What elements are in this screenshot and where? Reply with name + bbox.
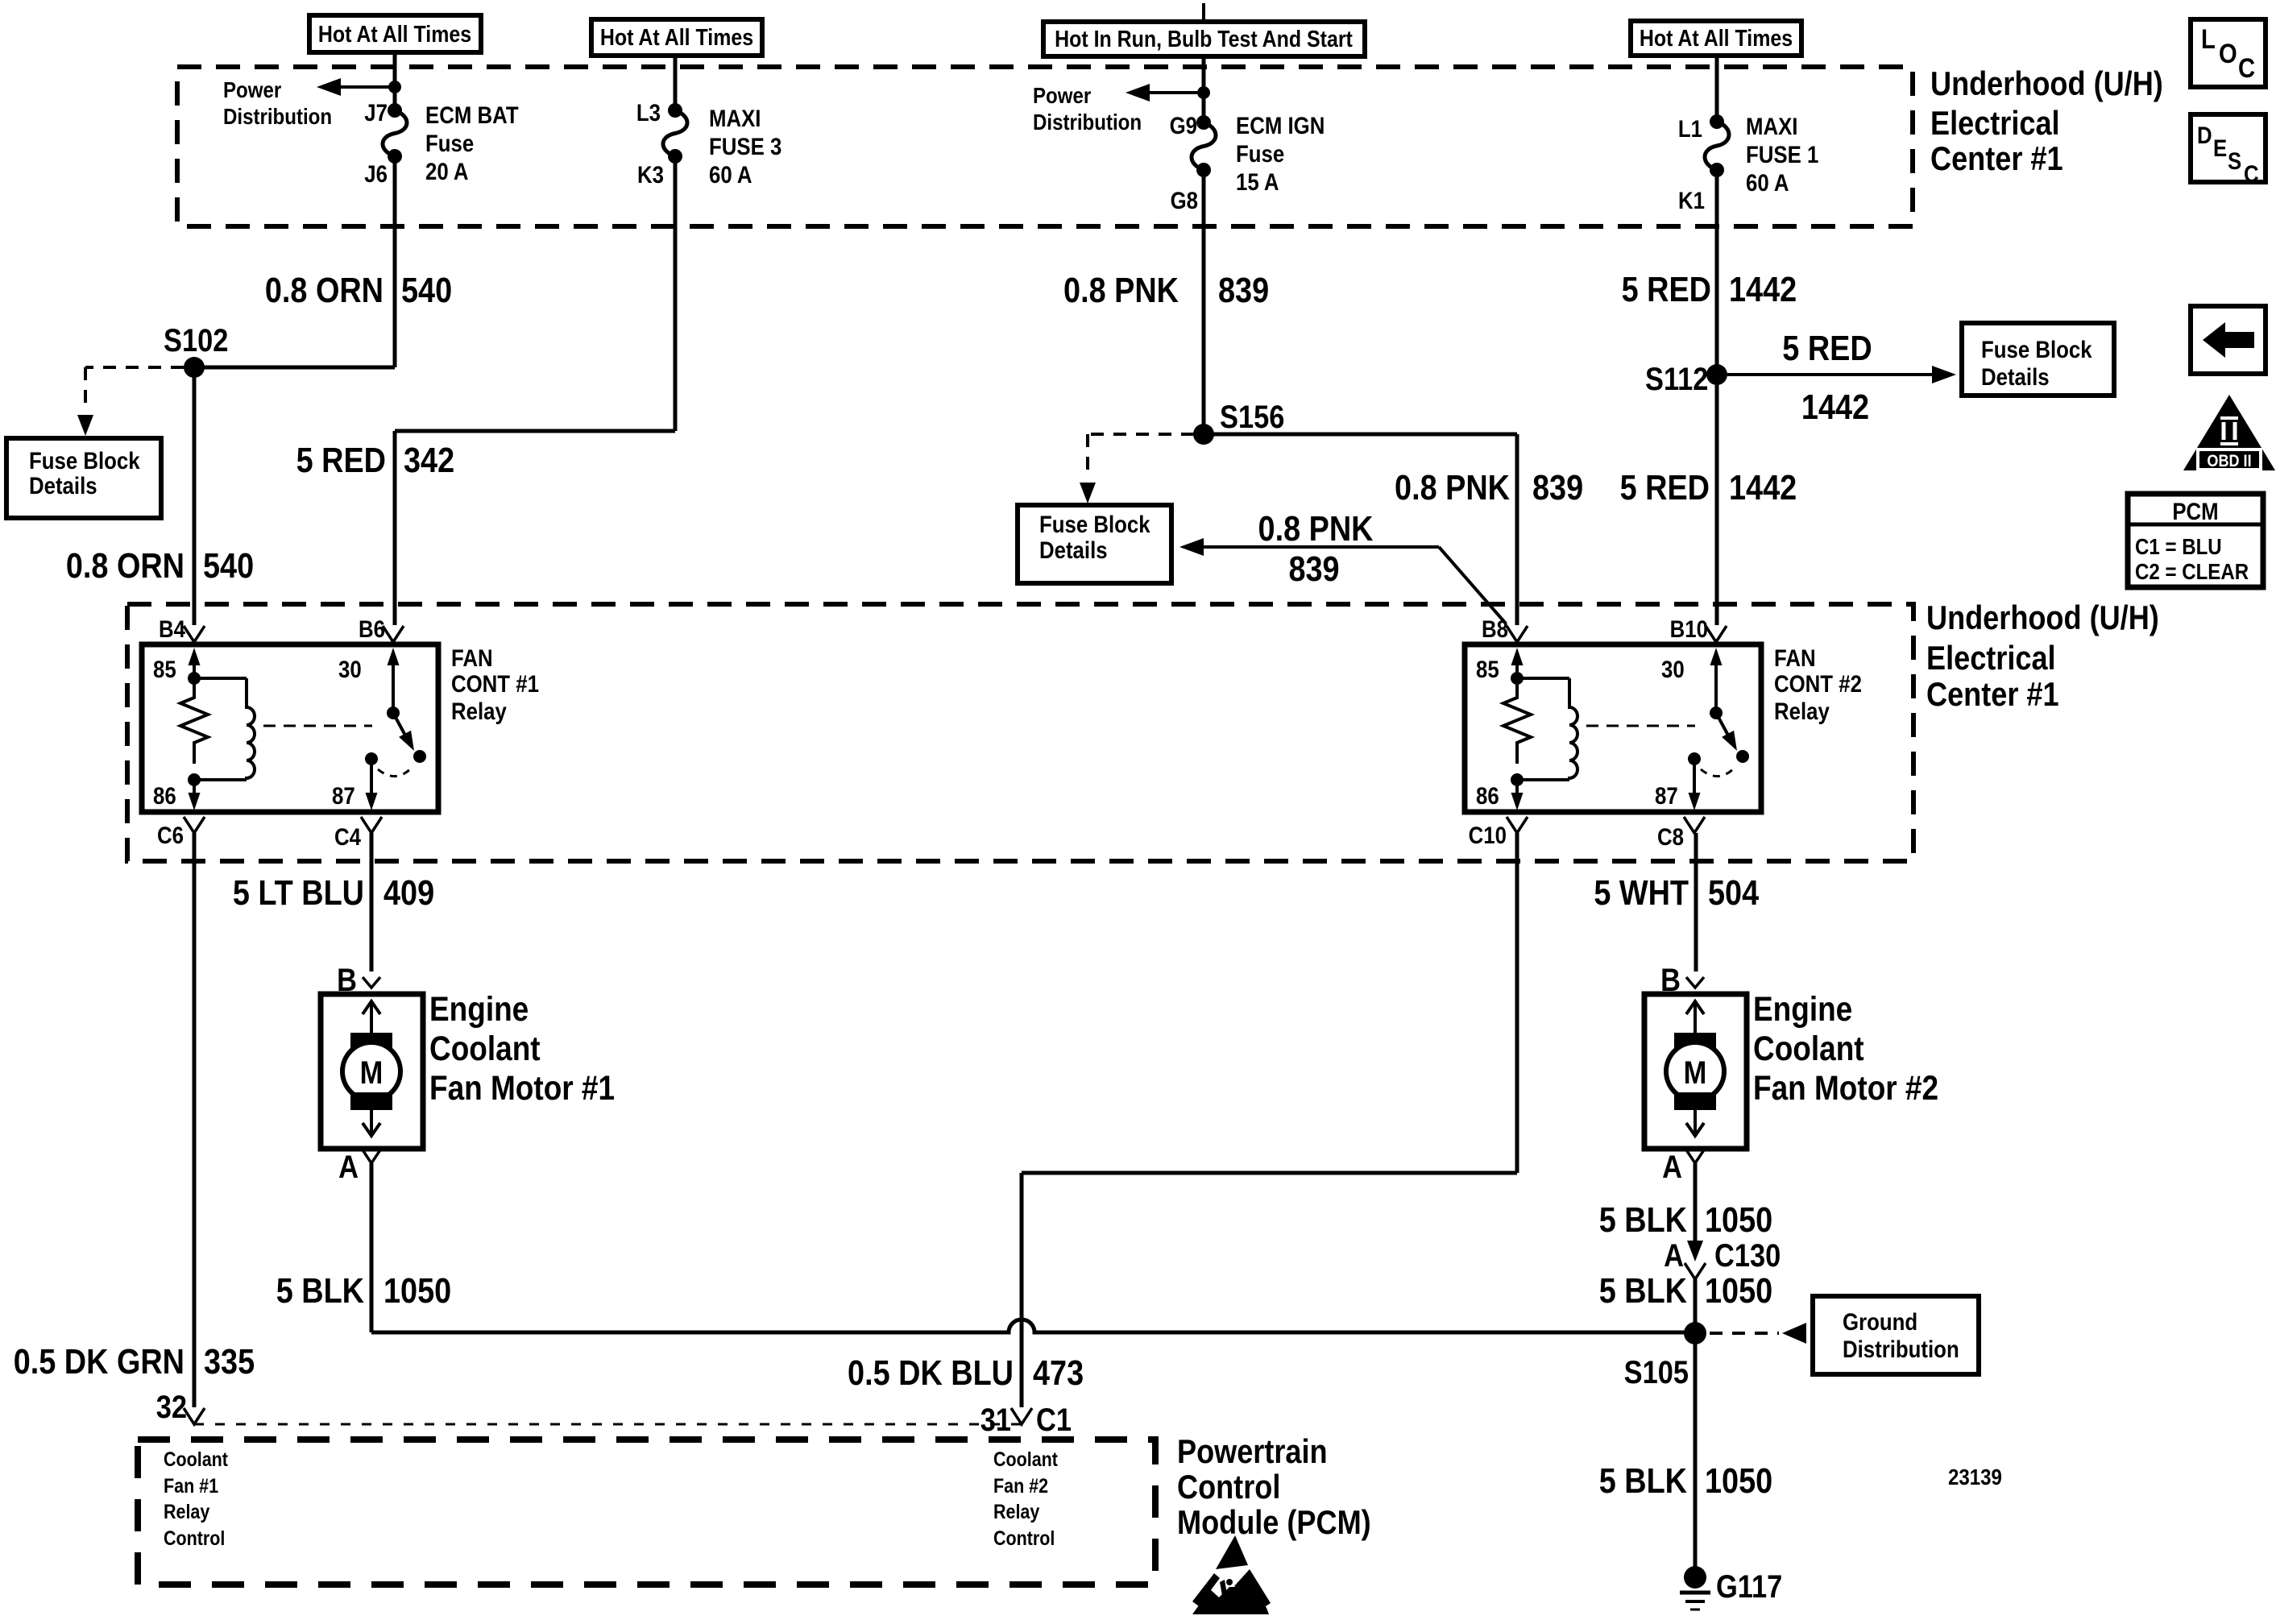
svg-text:Fuse Block: Fuse Block: [1981, 336, 2092, 362]
svg-text:0.8 ORN: 0.8 ORN: [66, 545, 184, 585]
svg-text:0.8 PNK: 0.8 PNK: [1063, 270, 1179, 309]
svg-text:1050: 1050: [1705, 1270, 1772, 1310]
svg-text:5 RED: 5 RED: [1620, 467, 1710, 507]
svg-text:Relay: Relay: [993, 1500, 1039, 1522]
svg-text:Hot In Run, Bulb Test And Star: Hot In Run, Bulb Test And Start: [1055, 26, 1353, 52]
svg-text:C: C: [2238, 52, 2255, 84]
svg-text:85: 85: [1476, 656, 1499, 682]
svg-text:Relay: Relay: [451, 698, 507, 724]
svg-text:Hot At All Times: Hot At All Times: [318, 21, 471, 47]
svg-text:0.5 DK BLU: 0.5 DK BLU: [848, 1353, 1014, 1392]
svg-text:0.8 PNK: 0.8 PNK: [1395, 467, 1510, 507]
svg-text:87: 87: [1655, 782, 1678, 809]
svg-text:Underhood (U/H): Underhood (U/H): [1926, 600, 2159, 637]
svg-text:Distribution: Distribution: [223, 103, 332, 129]
svg-text:MAXI: MAXI: [1746, 113, 1797, 139]
svg-text:540: 540: [401, 270, 452, 309]
svg-text:G9: G9: [1170, 112, 1197, 139]
svg-text:Module (PCM): Module (PCM): [1177, 1505, 1371, 1542]
svg-text:Power: Power: [1033, 82, 1091, 108]
svg-text:504: 504: [1708, 872, 1759, 912]
svg-text:Relay: Relay: [1774, 698, 1830, 724]
svg-text:J6: J6: [364, 160, 388, 187]
svg-text:Details: Details: [1039, 536, 1108, 563]
svg-text:L3: L3: [636, 99, 661, 126]
svg-text:85: 85: [153, 656, 176, 682]
svg-text:K3: K3: [637, 161, 664, 188]
svg-text:CONT #2: CONT #2: [1774, 670, 1862, 697]
svg-text:B6: B6: [359, 615, 385, 642]
svg-text:Powertrain: Powertrain: [1177, 1434, 1328, 1471]
svg-text:Coolant: Coolant: [164, 1448, 228, 1470]
svg-text:86: 86: [153, 782, 176, 809]
svg-text:839: 839: [1532, 467, 1583, 507]
svg-text:839: 839: [1288, 549, 1339, 588]
svg-text:C2 = CLEAR: C2 = CLEAR: [2135, 558, 2249, 584]
svg-text:1050: 1050: [1705, 1460, 1772, 1500]
svg-text:0.8 ORN: 0.8 ORN: [265, 270, 383, 309]
svg-text:31: 31: [980, 1402, 1011, 1438]
svg-text:C: C: [2244, 160, 2259, 187]
svg-text:20 A: 20 A: [425, 158, 469, 184]
svg-text:1442: 1442: [1729, 467, 1797, 507]
svg-text:Fan #2: Fan #2: [993, 1474, 1048, 1497]
svg-text:Fan Motor #2: Fan Motor #2: [1753, 1069, 1938, 1107]
svg-text:342: 342: [404, 440, 454, 479]
svg-text:C4: C4: [334, 823, 361, 850]
svg-text:Center #1: Center #1: [1930, 141, 2063, 178]
svg-text:Details: Details: [29, 472, 97, 499]
svg-text:FUSE 1: FUSE 1: [1746, 141, 1818, 168]
svg-text:Electrical: Electrical: [1926, 640, 2056, 677]
svg-text:5 RED: 5 RED: [296, 440, 386, 479]
svg-text:335: 335: [204, 1341, 255, 1381]
svg-text:CONT #1: CONT #1: [451, 670, 539, 697]
svg-text:S102: S102: [164, 322, 228, 358]
svg-text:C130: C130: [1714, 1237, 1781, 1274]
svg-text:Fan #1: Fan #1: [164, 1474, 218, 1497]
svg-text:1050: 1050: [1705, 1199, 1772, 1239]
svg-text:C8: C8: [1657, 823, 1684, 850]
svg-text:Hot At All Times: Hot At All Times: [600, 24, 753, 50]
svg-text:O: O: [2219, 38, 2237, 69]
svg-text:32: 32: [156, 1389, 187, 1425]
svg-text:87: 87: [332, 782, 355, 809]
svg-text:C1: C1: [1036, 1402, 1072, 1438]
svg-text:Relay: Relay: [164, 1500, 209, 1522]
svg-text:S112: S112: [1645, 361, 1708, 397]
svg-text:Center #1: Center #1: [1926, 677, 2059, 714]
svg-text:30: 30: [338, 656, 362, 682]
svg-text:C10: C10: [1469, 822, 1507, 848]
svg-text:Ground: Ground: [1843, 1308, 1917, 1335]
svg-text:C1 = BLU: C1 = BLU: [2135, 533, 2222, 559]
svg-text:Control: Control: [1177, 1469, 1280, 1506]
svg-text:L1: L1: [1678, 115, 1702, 142]
svg-text:E: E: [2213, 135, 2227, 161]
svg-text:5 BLK: 5 BLK: [276, 1270, 365, 1310]
svg-text:A: A: [1664, 1237, 1684, 1274]
svg-text:Distribution: Distribution: [1033, 109, 1142, 135]
svg-text:M: M: [1684, 1054, 1707, 1091]
svg-text:Control: Control: [164, 1527, 225, 1549]
svg-text:839: 839: [1218, 270, 1269, 309]
svg-text:M: M: [360, 1054, 383, 1091]
svg-text:FAN: FAN: [1774, 644, 1816, 671]
svg-text:Coolant: Coolant: [1753, 1029, 1864, 1067]
svg-text:Fuse Block: Fuse Block: [1039, 511, 1150, 537]
svg-text:0.5 DK GRN: 0.5 DK GRN: [14, 1341, 184, 1381]
svg-text:30: 30: [1661, 656, 1685, 682]
svg-text:C6: C6: [157, 822, 184, 848]
svg-text:L: L: [2201, 23, 2216, 55]
svg-text:G8: G8: [1171, 187, 1198, 213]
svg-text:G117: G117: [1716, 1568, 1782, 1605]
svg-text:B8: B8: [1482, 615, 1508, 642]
svg-text:540: 540: [203, 545, 254, 585]
svg-text:Engine: Engine: [429, 990, 529, 1028]
svg-text:PCM: PCM: [2172, 498, 2218, 524]
svg-text:B4: B4: [159, 615, 185, 642]
svg-text:1050: 1050: [383, 1270, 451, 1310]
svg-text:Electrical: Electrical: [1930, 106, 2060, 143]
svg-text:ECM IGN: ECM IGN: [1236, 112, 1325, 139]
svg-text:B10: B10: [1670, 615, 1708, 642]
svg-text:OBD II: OBD II: [2207, 452, 2251, 471]
svg-text:Details: Details: [1981, 363, 2050, 390]
svg-text:473: 473: [1033, 1353, 1084, 1392]
svg-text:5 RED: 5 RED: [1782, 328, 1872, 367]
svg-text:S: S: [2228, 147, 2241, 174]
svg-text:5 BLK: 5 BLK: [1599, 1460, 1688, 1500]
svg-text:MAXI: MAXI: [709, 105, 761, 131]
svg-text:Coolant: Coolant: [993, 1448, 1058, 1470]
svg-text:23139: 23139: [1948, 1464, 2002, 1489]
svg-text:5 LT BLU: 5 LT BLU: [233, 872, 364, 912]
svg-text:Distribution: Distribution: [1843, 1336, 1959, 1362]
svg-text:Underhood (U/H): Underhood (U/H): [1930, 66, 2163, 103]
svg-text:S156: S156: [1220, 399, 1284, 435]
svg-text:D: D: [2197, 122, 2212, 148]
svg-text:Hot At All Times: Hot At All Times: [1640, 25, 1793, 51]
svg-text:0.8 PNK: 0.8 PNK: [1258, 508, 1374, 548]
svg-text:60 A: 60 A: [1746, 169, 1789, 196]
svg-text:60 A: 60 A: [709, 161, 752, 188]
svg-text:A: A: [338, 1149, 359, 1185]
svg-text:Fuse: Fuse: [425, 130, 474, 156]
svg-text:K1: K1: [1678, 187, 1705, 213]
svg-text:409: 409: [383, 872, 434, 912]
svg-text:FAN: FAN: [451, 644, 493, 671]
svg-text:J7: J7: [364, 99, 388, 126]
svg-text:5 RED: 5 RED: [1622, 269, 1711, 309]
svg-text:86: 86: [1476, 782, 1499, 809]
svg-text:Control: Control: [993, 1527, 1055, 1549]
svg-text:5 BLK: 5 BLK: [1599, 1270, 1688, 1310]
svg-text:Fan Motor #1: Fan Motor #1: [429, 1069, 615, 1107]
svg-text:Power: Power: [223, 77, 281, 102]
svg-text:ECM BAT: ECM BAT: [425, 101, 519, 128]
svg-text:1442: 1442: [1801, 387, 1869, 426]
svg-text:5 WHT: 5 WHT: [1594, 872, 1689, 912]
svg-text:FUSE 3: FUSE 3: [709, 133, 781, 159]
svg-text:Coolant: Coolant: [429, 1029, 541, 1067]
svg-text:A: A: [1662, 1149, 1682, 1185]
svg-text:15 A: 15 A: [1236, 168, 1279, 195]
svg-text:Fuse: Fuse: [1236, 140, 1284, 167]
svg-text:Engine: Engine: [1753, 990, 1852, 1028]
svg-text:1442: 1442: [1729, 269, 1797, 309]
svg-text:5 BLK: 5 BLK: [1599, 1199, 1688, 1239]
svg-text:Fuse Block: Fuse Block: [29, 447, 140, 474]
svg-text:S105: S105: [1624, 1354, 1689, 1390]
